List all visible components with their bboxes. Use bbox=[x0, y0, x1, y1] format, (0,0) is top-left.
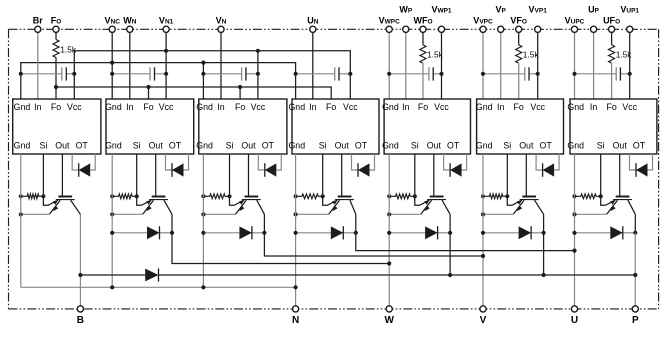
diode D5t (OT loop under U5) bbox=[444, 154, 450, 170]
svg-text:Fo: Fo bbox=[514, 102, 524, 112]
wire: Q4 collector bbox=[350, 200, 356, 214]
wire: Q3 emitter to rail bbox=[203, 213, 235, 215]
transistor Q4 (IGBT) bbox=[338, 196, 352, 198]
svg-text:In: In bbox=[217, 102, 224, 112]
wire: U1 emitter rail to N bus bbox=[20, 154, 22, 287]
wire: U5 Out to Q5 gate bbox=[433, 154, 435, 196]
svg-text:In: In bbox=[590, 102, 597, 112]
resistor Rg2 (gate/sense) bbox=[112, 194, 137, 199]
wire: UP to U7 In bbox=[593, 29, 595, 99]
svg-text:B: B bbox=[77, 315, 84, 326]
transistor Q7 (IGBT) bbox=[616, 196, 630, 198]
transistor Q6 (IGBT) bbox=[522, 196, 536, 198]
wire: phase W column (emitter rail to terminal) bbox=[388, 154, 390, 306]
wire: U3 Vcc stub bbox=[257, 51, 259, 99]
wire: U6 Out to Q6 gate bbox=[525, 154, 527, 196]
wire: N terminal lead bbox=[295, 287, 297, 306]
junction dots capacitor C4 row bbox=[294, 72, 298, 76]
wire: Q6 collector bbox=[535, 200, 544, 214]
svg-text:Fo: Fo bbox=[235, 102, 245, 112]
svg-text:Gnd: Gnd bbox=[105, 141, 122, 151]
diode D4 (freewheel) bbox=[296, 232, 331, 234]
wire: VUP1 to U7 Vcc bbox=[629, 29, 631, 99]
svg-text:Gnd: Gnd bbox=[105, 102, 122, 112]
svg-text:Si: Si bbox=[319, 141, 327, 151]
svg-text:OT: OT bbox=[262, 141, 275, 151]
junction dots Q5 cell bbox=[387, 194, 391, 198]
wire: U3 emitter rail to N bus bbox=[202, 154, 204, 287]
wire: U4 emitter rail to N bus bbox=[295, 154, 297, 287]
capacitor C3 (supply decoupling) bbox=[203, 73, 241, 75]
svg-text:Gnd: Gnd bbox=[476, 141, 493, 151]
svg-text:In: In bbox=[402, 102, 409, 112]
junction dots capacitor C5 row bbox=[387, 72, 391, 76]
svg-text:Gnd: Gnd bbox=[382, 102, 399, 112]
resistor R4 1.5k (UFO line) bbox=[611, 29, 613, 45]
wire: Q5 collector bbox=[442, 200, 450, 214]
junction dots P bus bbox=[78, 273, 82, 277]
svg-text:Fo: Fo bbox=[143, 102, 153, 112]
capacitor C1 (supply decoupling) bbox=[21, 73, 62, 75]
diode D2 (freewheel) bbox=[112, 232, 147, 234]
wire: U3 Out to Q3 gate bbox=[248, 154, 250, 196]
resistor Rg4 (gate/sense) bbox=[296, 194, 323, 199]
wire: UN to U4 In bbox=[312, 29, 314, 99]
capacitor C2 (supply decoupling) bbox=[112, 73, 150, 75]
junction dots capacitor C6 row bbox=[481, 72, 485, 76]
svg-text:Gnd: Gnd bbox=[567, 141, 584, 151]
svg-text:Out: Out bbox=[613, 141, 628, 151]
wire: VN1 to U2 Vcc bbox=[165, 29, 167, 99]
capacitor C7 (supply decoupling) bbox=[575, 73, 617, 75]
wire: Q7 emitter to rail bbox=[575, 213, 607, 215]
svg-text:P: P bbox=[632, 315, 639, 326]
resistor R3 1.5k (VFO line) bbox=[518, 29, 520, 45]
capacitor C4 (supply decoupling) bbox=[296, 73, 335, 75]
resistor Rg3 (gate/sense) bbox=[203, 194, 229, 199]
svg-text:Gnd: Gnd bbox=[14, 102, 31, 112]
wire: U2 Out to Q2 gate bbox=[155, 154, 157, 196]
wire: Q4 collector to U row bbox=[356, 214, 575, 250]
resistor R1 1.5k (FO line) bbox=[55, 29, 57, 39]
op-amp/driver block U6 bbox=[477, 99, 564, 154]
svg-text:OT: OT bbox=[76, 141, 89, 151]
junction dots capacitor C3 row bbox=[201, 72, 205, 76]
svg-text:In: In bbox=[34, 102, 41, 112]
transistor Q3 (IGBT) bbox=[245, 196, 259, 198]
wire: Q6 collector to P bus bbox=[543, 214, 545, 275]
junction dots Q4 cell bbox=[294, 194, 298, 198]
wire: Q2 emitter to rail bbox=[112, 213, 143, 215]
resistor Rg7 (gate/sense) bbox=[575, 194, 601, 199]
top terminal circles bbox=[35, 26, 41, 32]
svg-text:Fo: Fo bbox=[418, 102, 428, 112]
wire: Q4 emitter to rail bbox=[296, 213, 329, 215]
svg-text:In: In bbox=[309, 102, 316, 112]
junction dots D4 bbox=[294, 231, 298, 235]
junction dots Q6 cell bbox=[481, 194, 485, 198]
resistor Rg5 (gate/sense) bbox=[389, 194, 415, 199]
wire: U5 Si sense line bbox=[414, 154, 416, 196]
svg-text:Si: Si bbox=[133, 141, 141, 151]
wire: Q1 emitter to rail bbox=[21, 213, 50, 215]
svg-text:Vcc: Vcc bbox=[159, 102, 174, 112]
svg-text:1.5k: 1.5k bbox=[523, 50, 540, 60]
resistor Rg1 (gate/sense) bbox=[21, 194, 44, 199]
wire: Q2 collector to W row bbox=[172, 214, 389, 263]
wire: U3 Gnd stub bbox=[202, 63, 204, 99]
wire: U4 Out to Q4 gate bbox=[341, 154, 343, 196]
wire: VVPC to U6 Gnd bbox=[482, 29, 484, 99]
junction dots Q3 cell bbox=[201, 194, 205, 198]
capacitor C6 (supply decoupling) bbox=[483, 73, 525, 75]
wire: Q1 collector bbox=[71, 200, 81, 214]
svg-text:N: N bbox=[292, 315, 299, 326]
diode D5 (freewheel) bbox=[389, 232, 425, 234]
diode D6 (freewheel) bbox=[483, 232, 519, 234]
wire: VN to U3 In bbox=[220, 29, 222, 99]
diode D7 (freewheel) bbox=[575, 232, 611, 234]
svg-text:In: In bbox=[126, 102, 133, 112]
svg-text:W: W bbox=[384, 315, 394, 326]
diode D1t (OT loop under U1) bbox=[72, 154, 78, 170]
svg-text:Br: Br bbox=[33, 15, 43, 25]
junction dots capacitor C1 row bbox=[19, 72, 23, 76]
junction dots capacitor C2 row bbox=[110, 72, 114, 76]
wire: U1 Si sense line bbox=[42, 154, 44, 196]
op-amp/driver block U3 bbox=[199, 99, 287, 154]
svg-text:Gnd: Gnd bbox=[567, 102, 584, 112]
op-amp/driver block U1 bbox=[13, 99, 101, 154]
op-amp/driver block U2 bbox=[106, 99, 194, 154]
wire: VD bus (Vcc, VN1 supply) bbox=[74, 51, 350, 99]
junction dots on supply buses bbox=[164, 49, 168, 53]
wire: U1 Out to Q1 gate bbox=[61, 154, 63, 196]
svg-text:Si: Si bbox=[503, 141, 511, 151]
svg-text:Out: Out bbox=[241, 141, 256, 151]
svg-text:Vcc: Vcc bbox=[530, 102, 545, 112]
capacitor C5 (supply decoupling) bbox=[389, 73, 429, 75]
diode D2t (OT loop under U2) bbox=[166, 154, 172, 170]
svg-text:V: V bbox=[480, 315, 487, 326]
wire: VWP1 to U5 Vcc bbox=[441, 29, 443, 99]
junction dots Q1 cell bbox=[19, 194, 23, 198]
svg-text:Fo: Fo bbox=[51, 102, 61, 112]
wire: P bus with brake diode bbox=[80, 274, 145, 276]
svg-text:Vcc: Vcc bbox=[434, 102, 449, 112]
junction dots phase rows bbox=[387, 261, 391, 265]
junction dots D5 bbox=[387, 231, 391, 235]
junction dots N bus bbox=[110, 285, 114, 289]
wire: U3 Si sense line bbox=[229, 154, 231, 196]
wire: control GND bus (VNC) bbox=[21, 63, 296, 99]
wire: Q3 collector to V row bbox=[264, 214, 483, 256]
wire: Q5 collector to P bus bbox=[449, 214, 451, 275]
svg-text:Fo: Fo bbox=[606, 102, 616, 112]
wire: WP to U5 In bbox=[405, 29, 407, 99]
junction dots D7 bbox=[572, 231, 576, 235]
op-amp/driver block U7 bbox=[570, 99, 657, 154]
svg-text:Gnd: Gnd bbox=[476, 102, 493, 112]
wire: U4 Si sense line bbox=[322, 154, 324, 196]
svg-text:Gnd: Gnd bbox=[14, 141, 31, 151]
junction dots Q7 cell bbox=[572, 194, 576, 198]
svg-text:Si: Si bbox=[597, 141, 605, 151]
wire: U7 Out to Q7 gate bbox=[619, 154, 621, 196]
wire: U7 Si sense line bbox=[600, 154, 602, 196]
wire: N bus bbox=[21, 286, 296, 288]
svg-text:OT: OT bbox=[169, 141, 182, 151]
svg-text:1.5k: 1.5k bbox=[60, 45, 77, 55]
wire: Q7 collector to P terminal bbox=[634, 214, 636, 233]
svg-text:Si: Si bbox=[226, 141, 234, 151]
wire: VP to U6 In bbox=[500, 29, 502, 99]
svg-text:In: In bbox=[497, 102, 504, 112]
svg-text:Gnd: Gnd bbox=[196, 102, 213, 112]
wire: VVP1 to U6 Vcc bbox=[537, 29, 539, 99]
wire: VWPC to U5 Gnd bbox=[388, 29, 390, 99]
wire: U6 Si sense line bbox=[506, 154, 508, 196]
svg-text:U: U bbox=[571, 315, 578, 326]
wire: Q7 collector bbox=[628, 200, 635, 214]
op-amp/driver block U4 bbox=[292, 99, 379, 154]
transistor Q5 (IGBT) bbox=[430, 196, 444, 198]
wire: Q1 collector to B terminal bbox=[79, 214, 81, 306]
wire: phase U column (emitter rail to terminal) bbox=[574, 154, 576, 306]
wire: Br input to U1 In bbox=[37, 29, 39, 99]
diode D3t (OT loop under U3) bbox=[258, 154, 264, 170]
diode D6t (OT loop under U6) bbox=[536, 154, 542, 170]
wire: VUPC to U7 Gnd bbox=[574, 29, 576, 99]
diode D3 (freewheel) bbox=[203, 232, 239, 234]
svg-text:OT: OT bbox=[539, 141, 552, 151]
svg-text:Out: Out bbox=[55, 141, 70, 151]
junction dots D2 bbox=[110, 231, 114, 235]
diode D1 (brake, B to P) bbox=[145, 269, 158, 282]
svg-text:Out: Out bbox=[519, 141, 534, 151]
resistor Rg6 (gate/sense) bbox=[483, 194, 507, 199]
diode D7t (OT loop under U7) bbox=[630, 154, 636, 170]
wire: Fo pin stubs blocks 2,3 bbox=[148, 87, 150, 99]
wire: Q6 emitter to rail bbox=[483, 213, 513, 215]
wire: U2 emitter rail to N bus bbox=[111, 154, 113, 287]
wire: VNC to U2 Gnd bbox=[111, 29, 113, 99]
svg-text:Gnd: Gnd bbox=[382, 141, 399, 151]
resistor R2 1.5k (WFO line) bbox=[422, 29, 424, 45]
svg-text:Out: Out bbox=[427, 141, 442, 151]
svg-text:Out: Out bbox=[335, 141, 350, 151]
diode D4t (OT loop under U4) bbox=[352, 154, 358, 170]
svg-text:Vcc: Vcc bbox=[343, 102, 358, 112]
junction dots Q2 cell bbox=[110, 194, 114, 198]
svg-text:Gnd: Gnd bbox=[196, 141, 213, 151]
transistor Q1 (IGBT) bbox=[58, 196, 72, 198]
svg-text:OT: OT bbox=[355, 141, 368, 151]
op-amp/driver block U5 bbox=[384, 99, 470, 154]
wire: FO fault bus bbox=[56, 87, 331, 99]
junction dots capacitor C7 row bbox=[572, 72, 576, 76]
svg-text:Vcc: Vcc bbox=[622, 102, 637, 112]
svg-text:Gnd: Gnd bbox=[288, 102, 305, 112]
svg-text:OT: OT bbox=[633, 141, 646, 151]
svg-text:Out: Out bbox=[149, 141, 164, 151]
junction dots D3 bbox=[201, 231, 205, 235]
wire: Q5 emitter to rail bbox=[389, 213, 421, 215]
transistor Q2 (IGBT) bbox=[152, 196, 166, 198]
svg-text:Si: Si bbox=[411, 141, 419, 151]
wire: phase V column (emitter rail to terminal) bbox=[482, 154, 484, 306]
bottom terminal circles B N W V U P bbox=[77, 306, 83, 312]
svg-text:Gnd: Gnd bbox=[288, 141, 305, 151]
wire: U2 Si sense line bbox=[136, 154, 138, 196]
wire: Q2 collector bbox=[164, 200, 172, 214]
wire: Q3 collector bbox=[257, 200, 265, 214]
svg-text:Si: Si bbox=[39, 141, 47, 151]
svg-text:Fo: Fo bbox=[326, 102, 336, 112]
border frame (chain line) bbox=[9, 28, 659, 30]
svg-text:OT: OT bbox=[447, 141, 460, 151]
junction dots D6 bbox=[481, 231, 485, 235]
svg-text:Vcc: Vcc bbox=[67, 102, 82, 112]
svg-text:Vcc: Vcc bbox=[251, 102, 266, 112]
wire: WN to U2 In bbox=[129, 29, 131, 99]
